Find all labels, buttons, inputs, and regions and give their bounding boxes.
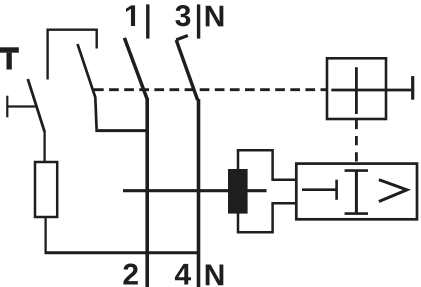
test contact blade S2 xyxy=(78,44,97,129)
pole A conductor line xyxy=(145,98,149,287)
relay input symbol horizontal xyxy=(302,188,337,191)
terminal tick right xyxy=(411,76,414,100)
terminal lead 1 xyxy=(146,4,149,38)
label 3 xyxy=(175,5,190,26)
terminal lead 3 N xyxy=(197,4,200,38)
pole B conductor line xyxy=(197,99,201,287)
test button actuator rod xyxy=(6,105,36,107)
label N top xyxy=(206,6,224,27)
relay input symbol bar xyxy=(335,180,338,200)
bottom test wire to neutral pole xyxy=(45,251,201,254)
label T (test button) xyxy=(0,47,19,52)
trip coil cross horizontal / wire to terminal xyxy=(331,89,411,92)
label 1 xyxy=(126,5,135,26)
current symbol I vertical xyxy=(355,171,358,214)
CT core (black rectangle) xyxy=(228,169,248,214)
label 2 xyxy=(123,264,137,285)
label 4 xyxy=(175,264,191,285)
trip coil cross vertical xyxy=(355,67,358,114)
CT connector plug outline xyxy=(238,150,296,232)
wire resistor to bottom wire xyxy=(44,217,46,253)
label N bottom xyxy=(206,265,224,286)
threshold symbol > xyxy=(379,180,407,202)
wire blade S2 to pole A line xyxy=(95,129,147,132)
current symbol I top serif xyxy=(345,169,368,172)
trip coil box xyxy=(327,58,386,119)
dashed mechanical link vertical xyxy=(355,120,358,164)
pole A switch blade xyxy=(124,38,147,100)
pole B switch blade xyxy=(176,40,197,100)
dashed mechanical link horizontal xyxy=(94,88,327,91)
relay box U1 xyxy=(296,164,417,220)
resistor R (test resistor) xyxy=(35,162,57,217)
test button actuator knob xyxy=(6,96,8,118)
current symbol I bottom serif xyxy=(345,212,368,215)
wire blade S1 to resistor xyxy=(43,131,45,164)
pole B switch blade tip xyxy=(176,36,188,40)
mechanism bracket xyxy=(48,30,97,80)
CT secondary line xyxy=(123,189,267,192)
test contact blade S1 xyxy=(28,79,45,132)
